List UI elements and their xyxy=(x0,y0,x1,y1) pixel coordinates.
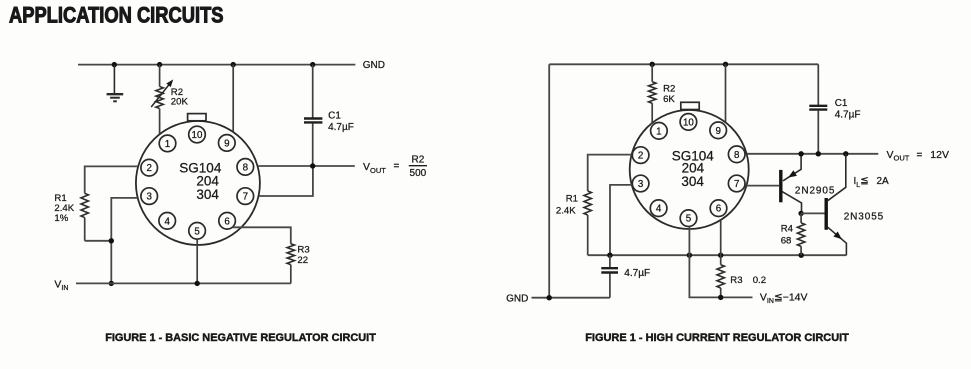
pin 8 (left IC) xyxy=(237,159,254,176)
svg-text:GND: GND xyxy=(506,293,528,304)
wire: VIN rail xyxy=(76,282,291,284)
wire: Q1 collector to Q2 base xyxy=(801,212,824,214)
wire: pin 6 to R3 xyxy=(233,227,291,243)
svg-text:8: 8 xyxy=(734,150,740,161)
junction: R4 on bus xyxy=(799,253,804,258)
junction: pin3 branch on VIN xyxy=(109,281,114,286)
wire: pin 2 to R1 (right) xyxy=(588,155,632,191)
junction: VOUT node xyxy=(310,163,315,168)
svg-text:12V: 12V xyxy=(930,149,949,161)
svg-text:C1: C1 xyxy=(835,98,848,109)
label SG104 204 304 (right) xyxy=(672,148,715,189)
svg-text:6: 6 xyxy=(224,216,230,227)
svg-text:2: 2 xyxy=(146,163,151,174)
svg-text:10: 10 xyxy=(192,130,203,141)
svg-text:304: 304 xyxy=(196,187,219,202)
junction: C1 on VOUT xyxy=(816,151,821,156)
junction: R2 on rail xyxy=(157,62,162,67)
pin 10 (left IC) xyxy=(189,126,206,143)
IC U1 SG104 can (left) xyxy=(136,114,260,245)
svg-text:7: 7 xyxy=(734,179,739,190)
junction: R2 on rail xyxy=(650,62,655,67)
IC U2 SG104 can (right) xyxy=(630,102,749,229)
wire: pin 5 to VIN rail xyxy=(196,239,198,283)
svg-text:C1: C1 xyxy=(328,110,341,121)
svg-text:20K: 20K xyxy=(171,96,189,107)
resistor R2 6K xyxy=(649,64,656,123)
junction: cap/pin3 on bus xyxy=(607,253,612,258)
svg-text:8: 8 xyxy=(243,162,249,173)
svg-text:22: 22 xyxy=(297,255,308,266)
pin 10 (right IC) xyxy=(680,114,697,131)
svg-text:0.2: 0.2 xyxy=(753,275,766,286)
junction: ground stub on rail xyxy=(112,62,117,67)
svg-text:9: 9 xyxy=(715,126,720,137)
pin 3 (left IC) xyxy=(141,188,158,205)
svg-text:3: 3 xyxy=(146,192,152,203)
resistor R2 20K (variable) xyxy=(151,65,173,134)
svg-text:=: = xyxy=(917,150,923,161)
svg-text:=: = xyxy=(394,161,400,172)
wire: bottom bus (right) xyxy=(588,254,847,256)
wire: rail to pin 9 (right) xyxy=(725,64,727,122)
capacitor C1 4.7uF (right) xyxy=(809,64,827,154)
pin 9 (right IC) xyxy=(710,122,727,139)
pin 7 (left IC) xyxy=(237,188,254,205)
svg-text:R4: R4 xyxy=(781,224,794,235)
wire: pin 8 to VOUT xyxy=(258,165,355,167)
svg-text:R3: R3 xyxy=(730,275,742,286)
junction: pin5 on bus xyxy=(687,253,692,258)
pin 7 (right IC) xyxy=(728,175,745,192)
pin 2 (left IC) xyxy=(141,159,158,176)
svg-text:R2: R2 xyxy=(663,83,675,94)
junction: Q2 collector on VOUT xyxy=(843,151,848,156)
wire: top rail (right circuit) xyxy=(549,63,818,65)
wire: rail to pin 9 xyxy=(232,65,234,132)
label SG104 204 304 xyxy=(179,160,222,202)
svg-text:R2: R2 xyxy=(412,155,425,166)
svg-text:4: 4 xyxy=(164,216,170,227)
pin 8 (right IC) xyxy=(728,146,745,163)
svg-text:1: 1 xyxy=(656,126,661,137)
wire: pin 5 down to VIN (right) xyxy=(689,227,752,298)
svg-text:4: 4 xyxy=(656,204,662,215)
wire: pin 3 down to VIN rail xyxy=(111,198,137,284)
wire: pin 7 riser to VOUT xyxy=(259,166,313,196)
ground symbol xyxy=(107,65,124,102)
svg-text:304: 304 xyxy=(681,174,704,189)
pin 3 (right IC) xyxy=(632,175,649,192)
junction: R3 on bus xyxy=(718,253,723,258)
svg-text:2.4K: 2.4K xyxy=(556,205,576,216)
svg-text:68: 68 xyxy=(781,236,792,247)
svg-text:IL≦2A: IL≦2A xyxy=(854,175,890,189)
wire: left branch down to GND rail xyxy=(548,64,550,297)
junction: R3 on VIN xyxy=(718,295,723,300)
svg-text:2N2905: 2N2905 xyxy=(795,186,835,197)
capacitor C2 4.7uF (bypass) xyxy=(601,255,618,298)
svg-text:9: 9 xyxy=(224,138,229,149)
svg-text:4.7µF: 4.7µF xyxy=(328,122,354,133)
resistor R3 22 xyxy=(287,244,294,284)
resistor R3 0.2 xyxy=(717,255,724,297)
svg-text:1%: 1% xyxy=(54,213,68,224)
pin 6 (right IC) xyxy=(710,200,727,217)
wire: pin 6 riser (right) xyxy=(720,221,722,256)
svg-text:5: 5 xyxy=(686,214,692,225)
wire: GND top rail (left circuit) xyxy=(78,64,355,66)
label VOUT = R2/500 xyxy=(363,155,427,180)
svg-text:3: 3 xyxy=(638,179,644,190)
transistor Q1 2N2905 xyxy=(779,154,801,213)
svg-text:7: 7 xyxy=(243,192,248,203)
wire: pin 2 to R1 top xyxy=(85,166,138,193)
svg-text:VIN: VIN xyxy=(54,278,68,292)
resistor R1 2.4K (right) xyxy=(584,191,591,255)
junction: left branch on GND xyxy=(547,295,552,300)
junction: pin9 riser on rail xyxy=(231,62,236,67)
svg-text:2: 2 xyxy=(638,151,643,162)
wire: GND rail (right) xyxy=(532,297,610,299)
pin 6 (left IC) xyxy=(219,213,236,230)
junction: Q1 emitter on VOUT xyxy=(798,151,803,156)
svg-text:FIGURE 1 - BASIC NEGATIVE REGU: FIGURE 1 - BASIC NEGATIVE REGULATOR CIRC… xyxy=(105,332,376,344)
svg-text:VIN≦−14V: VIN≦−14V xyxy=(760,291,808,305)
svg-text:5: 5 xyxy=(194,226,200,237)
junction: Q1 collector / R4 / Q2 base xyxy=(798,211,803,216)
wire: pin 7 to Q1 base xyxy=(747,185,780,187)
svg-text:GND: GND xyxy=(363,60,385,71)
pin 5 (right IC) xyxy=(680,210,697,227)
svg-text:6K: 6K xyxy=(663,94,675,105)
svg-text:APPLICATION CIRCUITS: APPLICATION CIRCUITS xyxy=(9,2,224,27)
transistor Q2 2N3055 xyxy=(825,154,847,255)
svg-text:1: 1 xyxy=(165,139,170,150)
svg-text:2N3055: 2N3055 xyxy=(844,212,884,223)
svg-text:R3: R3 xyxy=(297,244,309,255)
svg-text:4.7µF: 4.7µF xyxy=(835,110,861,121)
svg-text:VOUT: VOUT xyxy=(887,149,910,163)
capacitor C1 (left) xyxy=(304,65,322,166)
pin 9 (left IC) xyxy=(219,135,236,152)
pin 4 (right IC) xyxy=(650,200,667,217)
svg-text:10: 10 xyxy=(683,117,694,128)
junction: C1 on rail xyxy=(310,62,315,67)
resistor R1 2.4K 1% xyxy=(81,193,88,240)
junction: R1/pin3 xyxy=(109,238,114,243)
pin 1 (left IC) xyxy=(159,135,176,152)
junction: pin5 on VIN xyxy=(195,281,200,286)
svg-text:FIGURE 1 - HIGH CURRENT REGUL: FIGURE 1 - HIGH CURRENT REGULATOR CIRCUI… xyxy=(585,332,849,344)
svg-text:6: 6 xyxy=(716,204,722,215)
wire: pin 3 down to bus (right) xyxy=(610,185,632,255)
svg-text:500: 500 xyxy=(410,168,427,179)
svg-text:R1: R1 xyxy=(566,194,578,205)
svg-text:VOUT: VOUT xyxy=(363,161,386,175)
resistor R4 68 xyxy=(797,213,804,255)
wire: R1 bottom to pin-3 branch xyxy=(85,240,112,242)
pin 5 (left IC) xyxy=(189,223,206,240)
svg-text:4.7µF: 4.7µF xyxy=(624,268,650,279)
junction: pin9 riser on rail xyxy=(723,62,728,67)
pin 4 (left IC) xyxy=(159,213,176,230)
pin 2 (right IC) xyxy=(632,147,649,164)
pin 1 (right IC) xyxy=(651,123,668,140)
wire: VOUT line (right) xyxy=(747,153,879,155)
